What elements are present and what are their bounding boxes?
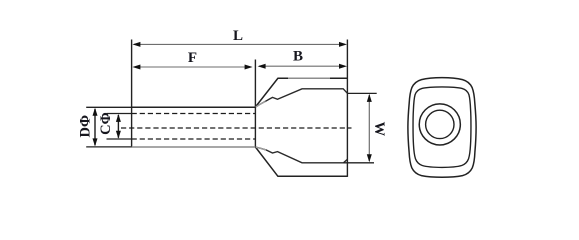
tube bottom edge (light) xyxy=(132,146,256,148)
end view inner funnel outline xyxy=(413,87,471,167)
svg-text:W: W xyxy=(371,122,387,137)
dimension L line xyxy=(132,42,347,47)
dimension W arrow xyxy=(367,94,372,162)
D-phi top tick xyxy=(86,106,131,108)
extension line middle (F/B boundary, tube/collar junction) xyxy=(254,60,256,147)
dimension C-phi arrow xyxy=(116,114,121,139)
C-phi bottom tick xyxy=(107,138,132,140)
C-phi top tick xyxy=(107,113,132,115)
collar outer top outline xyxy=(255,78,347,107)
collar inner funnel top line xyxy=(255,89,347,107)
end view outer insulation outline xyxy=(408,78,476,178)
dashed inner-bore top line xyxy=(132,113,255,115)
wire (light segment of collar top plateau) xyxy=(288,77,330,79)
svg-text:CΦ: CΦ xyxy=(98,112,114,135)
W bottom extension line xyxy=(344,162,375,164)
tube top edge xyxy=(132,106,256,108)
D-phi bottom tick xyxy=(86,146,131,148)
wire (gray lead-in of funnel bottom line) xyxy=(256,147,266,150)
dimension F line xyxy=(132,65,252,70)
end view wire-hole inner circle xyxy=(426,110,454,138)
dashed center line xyxy=(121,127,352,129)
extension line left (L/F datum + tube left edge) xyxy=(131,40,133,148)
svg-text:F: F xyxy=(188,50,197,66)
svg-text:DΦ: DΦ xyxy=(77,115,93,138)
svg-text:L: L xyxy=(233,28,243,44)
svg-text:B: B xyxy=(293,48,303,64)
dimension D-phi arrow xyxy=(93,108,98,147)
W top extension line xyxy=(347,92,376,94)
extension line right (L/B datum + collar right edge) xyxy=(346,40,348,177)
dashed inner-bore bottom line xyxy=(132,138,255,140)
dimension B line xyxy=(258,64,347,69)
collar outer bottom outline xyxy=(255,147,347,176)
collar inner funnel bottom line xyxy=(255,147,347,163)
end view wire-hole outer circle xyxy=(419,104,460,145)
wire (gray lead-in of funnel top line) xyxy=(256,101,266,107)
